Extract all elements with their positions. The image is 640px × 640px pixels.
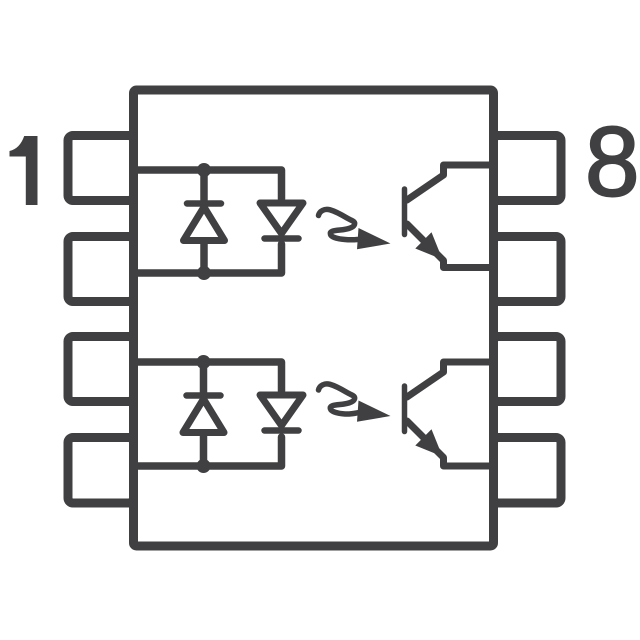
node: ch2 top junction dot [197, 355, 211, 369]
diode D2a triangle (anode up) [183, 399, 224, 433]
light arrow ch2 head [357, 401, 391, 422]
pin 1 pad [68, 136, 134, 201]
light arrow ch2 squiggle [319, 384, 358, 414]
pin 6 pad [494, 337, 562, 402]
diode D2a vertical leads [200, 362, 208, 466]
wire: ch1 cathode rail to pin 2 [134, 244, 282, 273]
pin 3 pad [68, 337, 134, 402]
transistor Q2 collector wire to pin 6 [407, 362, 494, 397]
node: ch2 bottom junction dot [197, 459, 211, 473]
node: ch1 top junction dot [197, 163, 211, 177]
light arrow ch1 squiggle [319, 209, 358, 239]
wire: ch1 anode rail from pin 1 [134, 170, 282, 199]
transistor Q2 base bar [402, 386, 408, 432]
svg-text:8: 8 [585, 107, 640, 217]
diode D1a cathode bar [187, 200, 221, 207]
transistor Q1 emitter arrow [415, 232, 442, 259]
transistor Q1 base bar [402, 189, 408, 235]
diode D1a vertical leads [200, 170, 208, 273]
pin label 1 [10, 136, 38, 205]
transistor Q1 collector wire to pin 8 [407, 165, 494, 200]
wire: ch2 anode rail from pin 3 [134, 362, 282, 391]
light arrow ch1 head [357, 228, 391, 249]
IC body U1 [134, 90, 494, 546]
diode D2a cathode bar [187, 392, 221, 399]
transistor Q2 emitter arrow [415, 429, 442, 456]
pin 4 pad [68, 438, 134, 504]
pin 7 pad [494, 237, 562, 302]
pin 2 pad [68, 237, 134, 302]
transistor Q1 emitter wire to pin 7 [407, 224, 494, 268]
diode D1b cathode bar [265, 235, 299, 242]
node: ch1 bottom junction dot [197, 266, 211, 280]
pin 8 pad [494, 136, 562, 201]
transistor Q2 emitter wire to pin 5 [407, 421, 494, 466]
wire: ch2 cathode rail to pin 4 [134, 437, 282, 466]
diode D2b cathode bar [265, 427, 299, 434]
pin 5 pad [494, 438, 562, 504]
diode D1b triangle (cathode down) [260, 203, 303, 234]
diode D1a triangle (anode up) [184, 207, 225, 241]
diode D2b triangle (cathode down) [260, 395, 303, 426]
